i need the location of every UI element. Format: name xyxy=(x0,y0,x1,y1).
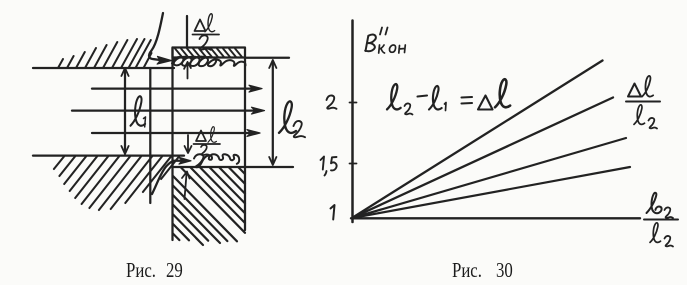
label 1,5 xyxy=(321,157,337,176)
bottom dim down arrow xyxy=(185,135,192,153)
old-plate right edge vertical wire xyxy=(149,68,151,203)
axis label B''kon xyxy=(365,28,405,54)
bottom fraction b2 / l2 xyxy=(644,193,678,247)
svg-text:Рис.: Рис. xyxy=(452,259,482,282)
top fringing coil squiggle xyxy=(172,57,246,67)
label l1 xyxy=(131,96,146,127)
new-plate left edge vertical wire xyxy=(171,48,173,241)
caption Fig 29 xyxy=(126,259,183,282)
svg-text:30: 30 xyxy=(496,259,513,282)
bottom-left plate top line xyxy=(33,154,184,156)
top hook field line xyxy=(149,13,163,60)
bottom-right block hatching xyxy=(173,168,245,246)
label 2 xyxy=(327,95,337,108)
top plate surface line right extension xyxy=(245,57,289,59)
tick 1.5 xyxy=(350,163,357,165)
label l2 xyxy=(279,101,305,137)
right fraction delta-l / l2 xyxy=(626,76,660,129)
equation l2-l1=delta l xyxy=(387,79,510,114)
small up arrow under bar xyxy=(184,62,191,79)
top-left plate bottom line xyxy=(33,67,174,69)
label delta-l/2 top xyxy=(193,14,220,50)
top bar (new top plate) outline xyxy=(173,48,246,58)
fan line 3 xyxy=(353,138,626,218)
fan line 4 xyxy=(353,167,630,218)
l1 dimension line xyxy=(124,70,126,152)
dim leader top xyxy=(186,16,188,47)
caption Fig 30 xyxy=(452,259,513,282)
svg-text:Рис.: Рис. xyxy=(126,259,156,282)
label delta-l/2 bottom xyxy=(194,127,221,156)
bottom-right block top line and l2 extension xyxy=(173,166,294,168)
bottom hook field line xyxy=(152,161,174,194)
tick 2 xyxy=(350,102,357,104)
top bar hatching xyxy=(175,49,242,58)
bottom-left plate hatching xyxy=(54,157,179,211)
fan line 1 xyxy=(353,61,603,218)
fan line 2 xyxy=(353,98,613,218)
bottom up arrow xyxy=(182,172,190,200)
x axis xyxy=(351,217,640,219)
right edge vertical of new plates xyxy=(244,58,246,231)
field arrow 2 xyxy=(72,109,256,111)
svg-text:29: 29 xyxy=(166,259,183,282)
bottom right arrow into gap xyxy=(173,160,184,162)
bottom fringing coil squiggle xyxy=(194,154,239,167)
label 1 at origin xyxy=(331,205,335,220)
field arrow 3 xyxy=(92,132,252,134)
y axis xyxy=(351,21,354,223)
top-left plate hatching xyxy=(58,39,152,68)
l2 dimension line xyxy=(272,62,274,163)
field arrow 1 xyxy=(92,87,254,89)
